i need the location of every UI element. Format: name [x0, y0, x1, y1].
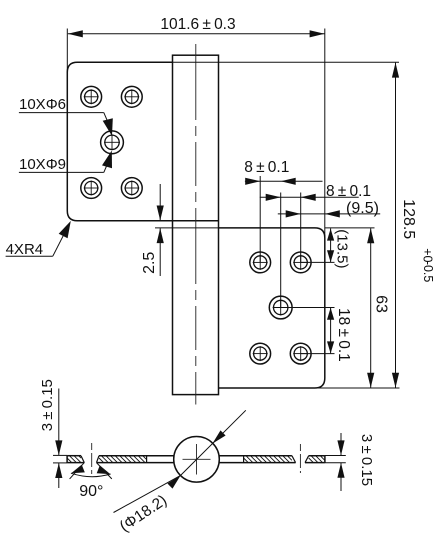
hole right leaf bottom-right — [290, 343, 311, 364]
svg-text:3±0.15: 3±0.15 — [358, 434, 375, 486]
hole left leaf top-right — [121, 86, 142, 107]
svg-text:4XR4: 4XR4 — [6, 241, 44, 258]
left leaf outline — [67, 62, 218, 220]
dimension 128.5 +0/-0.5 — [395, 63, 397, 388]
dimension 2.5 — [159, 184, 161, 220]
barrel centerline — [195, 44, 197, 405]
hole right leaf top-right — [290, 252, 311, 273]
extension line hole row bottom — [301, 353, 335, 355]
section joint line right — [243, 456, 245, 463]
dimension 3±0.15 right — [325, 455, 346, 457]
dimension (13.5) — [330, 228, 332, 262]
extension line left edge — [66, 29, 68, 73]
countersunk hole right (section) — [292, 456, 296, 463]
extension line top edge — [173, 61, 400, 63]
svg-text:10XΦ9: 10XΦ9 — [19, 156, 66, 173]
hole left leaf bottom-right — [121, 178, 142, 199]
svg-text:(Φ18.2): (Φ18.2) — [117, 492, 170, 536]
extension line hole row middle — [281, 307, 335, 309]
dimension 3±0.15 left — [53, 454, 67, 456]
dimension 90° arc — [71, 473, 111, 477]
countersunk hole left (section) — [81, 456, 84, 463]
hole centerline left (section) — [91, 443, 93, 474]
svg-text:-0.5: -0.5 — [421, 261, 435, 283]
countersink angle construction lines — [97, 463, 112, 479]
svg-text:90°: 90° — [79, 483, 103, 500]
svg-text:2.5: 2.5 — [141, 252, 158, 274]
section right leaf bar — [324, 456, 326, 463]
extension line hole column C — [300, 193, 302, 263]
dimension (Φ18.2) leader — [114, 475, 181, 512]
extension line right-leaf top edge — [155, 227, 219, 229]
knuckle circle Φ18.2 — [174, 437, 220, 483]
hole right leaf bottom-left — [250, 343, 271, 364]
svg-text:(13.5): (13.5) — [334, 229, 351, 268]
svg-text:63: 63 — [372, 295, 389, 313]
hatching right leaf section — [243, 462, 245, 464]
hole centerline right (section) — [299, 444, 301, 473]
hole right leaf top-left — [250, 252, 271, 273]
knuckle centerline cross — [183, 458, 211, 460]
extension line hole column A — [259, 176, 261, 262]
extension line hole row top — [301, 261, 335, 263]
svg-text:18±0.1: 18±0.1 — [335, 308, 352, 362]
svg-text:8±0.1: 8±0.1 — [244, 159, 289, 176]
svg-text:10XΦ6: 10XΦ6 — [19, 96, 66, 113]
hatching left leaf section — [66, 462, 68, 464]
hole left leaf middle — [101, 131, 124, 154]
hole left leaf top-left — [81, 86, 102, 107]
svg-text:101.6±0.3: 101.6±0.3 — [160, 16, 235, 33]
dimension 63 — [370, 228, 372, 388]
extension line hole column B — [280, 193, 282, 308]
extension line right edge — [324, 29, 326, 238]
extension line bottom edge — [315, 387, 400, 389]
hole right leaf middle — [269, 296, 292, 319]
dimension 18±0.1 — [330, 308, 332, 354]
hinge barrel — [173, 55, 219, 394]
svg-text:3±0.15: 3±0.15 — [39, 379, 56, 431]
right leaf outline — [219, 228, 325, 388]
section joint line left — [146, 456, 148, 463]
svg-text:128.5: 128.5 — [400, 199, 417, 239]
section left leaf bar — [66, 456, 68, 463]
hole left leaf bottom-left — [81, 178, 102, 199]
